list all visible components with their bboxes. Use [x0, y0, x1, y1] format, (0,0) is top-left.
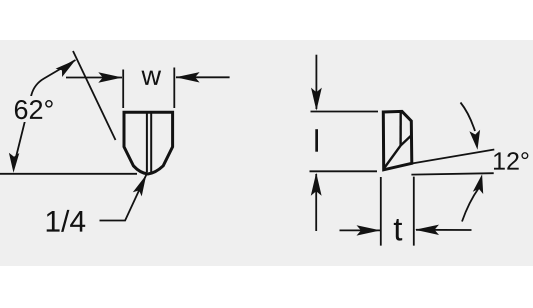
12° lower arc arrow [462, 174, 483, 221]
dimension l: bottom arrow [311, 173, 322, 231]
drill web line left [146, 113, 148, 172]
insert side-view outline [383, 111, 412, 169]
label 62° [12, 96, 56, 122]
12° angled line [412, 150, 495, 164]
dimension t: right arrow [415, 225, 472, 235]
label 12° [494, 152, 528, 170]
label l [315, 129, 318, 152]
drill web line right [150, 113, 152, 172]
leader line for 1/4 [100, 175, 147, 221]
dimension t: left arrow [340, 225, 381, 235]
label 1/4 [47, 210, 85, 232]
drill point outline [124, 112, 173, 174]
62° angle arc with arrowheads [9, 60, 76, 173]
dimension w: left extension line [122, 70, 124, 109]
dimension l: top extension line [311, 111, 379, 113]
label w [142, 71, 162, 85]
insert facet edge diagonal [384, 135, 412, 168]
dimension w: left arrow [66, 72, 122, 82]
dimension w: right extension line [173, 68, 175, 109]
insert facet edge vertical [399, 112, 402, 146]
dimension w: right arrow [176, 72, 230, 82]
dimension t: right extension line [413, 177, 415, 246]
label t [394, 219, 402, 241]
12° horizontal reference line [411, 173, 493, 174]
12° upper arc arrow [461, 103, 481, 150]
dimension l: top arrow [311, 55, 322, 111]
gray drawing background band [0, 40, 533, 266]
dimension l: bottom extension line [310, 170, 378, 172]
flank angle line (62° reference diagonal) [73, 51, 116, 140]
dimension t: left extension line [380, 177, 382, 246]
baseline (horizontal reference line of 62° angle) [0, 173, 137, 175]
